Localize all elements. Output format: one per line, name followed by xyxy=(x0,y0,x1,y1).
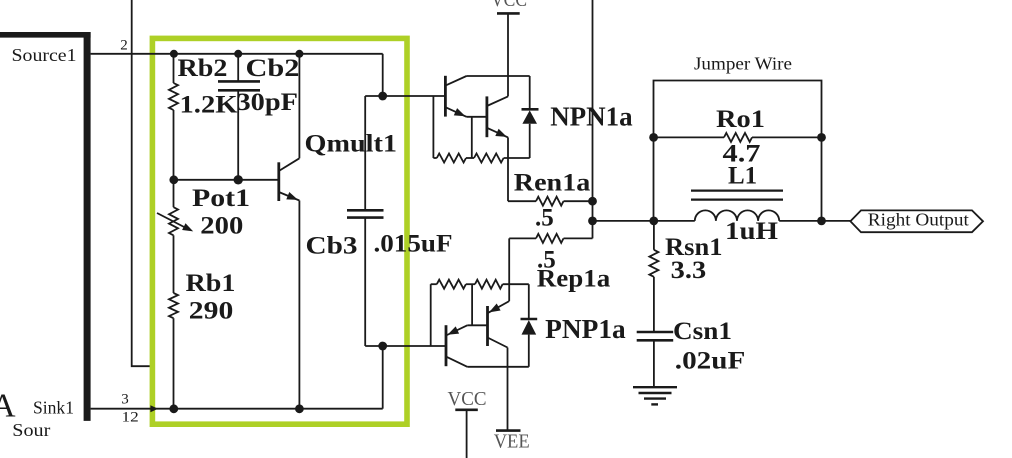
junction Qmult1 emitter bottom xyxy=(295,404,304,413)
VCC rail top xyxy=(507,13,509,96)
junction output node left xyxy=(588,217,597,226)
potentiometer Pot1 xyxy=(173,180,175,207)
base-emitter resistor row PNP1a xyxy=(431,283,437,285)
resistor Rb1 xyxy=(169,293,178,318)
svg-text:Rb1: Rb1 xyxy=(186,270,236,297)
svg-text:200: 200 xyxy=(200,212,243,239)
VCC stub bottom xyxy=(455,408,478,411)
base-emitter resistor row NPN1a xyxy=(432,96,434,158)
resistor Rep1a xyxy=(509,237,536,239)
svg-text:290: 290 xyxy=(189,297,234,324)
svg-text:PNP1a: PNP1a xyxy=(545,314,626,344)
svg-text:Jumper Wire: Jumper Wire xyxy=(694,54,792,74)
svg-text:12: 12 xyxy=(122,410,139,426)
junction L1 right xyxy=(817,217,826,226)
svg-text:NPN1a: NPN1a xyxy=(550,102,633,132)
svg-text:Right Output: Right Output xyxy=(868,209,969,229)
inductor L1 core lines xyxy=(691,190,783,192)
svg-text:Sour: Sour xyxy=(12,420,50,440)
transistor Q1 of PNP1a xyxy=(445,325,448,366)
svg-text:Ro1: Ro1 xyxy=(716,106,765,133)
transistor Q1 of NPN1a xyxy=(444,76,447,117)
svg-text:Rep1a: Rep1a xyxy=(537,265,611,292)
svg-text:1.2K: 1.2K xyxy=(180,92,239,119)
transistor Q2 of PNP1a xyxy=(486,306,489,346)
svg-text:.02uF: .02uF xyxy=(675,347,746,374)
junction Ro1 left xyxy=(649,133,658,142)
resistor Rb2 xyxy=(173,54,175,83)
connector Right Output xyxy=(850,210,983,232)
ground xyxy=(633,386,677,388)
junction L1 left / Rsn1 top xyxy=(649,217,658,226)
wire pin 2 (Source1 to node) xyxy=(91,53,383,55)
svg-text:3: 3 xyxy=(121,392,129,408)
junction NPN base node xyxy=(378,92,387,101)
wire base NPN xyxy=(365,95,445,97)
junction Cb2 bottom / Qmult1 base xyxy=(234,175,243,184)
diode of PNP1a xyxy=(528,284,530,318)
svg-text:.015uF: .015uF xyxy=(374,230,453,257)
svg-text:Csn1: Csn1 xyxy=(673,318,732,345)
svg-text:Cb3: Cb3 xyxy=(306,232,358,259)
capacitor Csn1 xyxy=(637,331,674,334)
capacitor Cb2 xyxy=(237,54,239,82)
transistor Q2 of NPN1a xyxy=(485,96,488,137)
transistor Qmult1 xyxy=(277,162,280,201)
svg-text:VCC: VCC xyxy=(491,0,527,11)
svg-text:1uH: 1uH xyxy=(725,218,779,245)
svg-text:30pF: 30pF xyxy=(237,89,299,116)
svg-text:Sink1: Sink1 xyxy=(33,397,74,417)
capacitor Cb3 xyxy=(347,209,384,212)
wire base PNP xyxy=(365,345,446,347)
junction Rb2 top xyxy=(170,50,178,58)
svg-text:3.3: 3.3 xyxy=(671,257,707,284)
resistor Ren1a xyxy=(508,200,536,202)
svg-text:Qmult1: Qmult1 xyxy=(305,131,398,158)
svg-text:Rb2: Rb2 xyxy=(178,55,228,82)
junction Qmult1 collector xyxy=(295,50,303,58)
svg-text:VEE: VEE xyxy=(494,431,530,453)
svg-text:A: A xyxy=(0,387,16,424)
svg-text:Ren1a: Ren1a xyxy=(514,169,591,196)
bottom wire PNP1a xyxy=(467,366,529,368)
wire Rb2/Cb2 bottom to Qmult1 base xyxy=(174,179,279,181)
junction PNP base node xyxy=(378,342,387,351)
Source1 block top bar xyxy=(0,32,91,38)
wire pin2 stub into subcircuit box xyxy=(132,0,153,366)
wire top node down to NPN base wire xyxy=(382,54,384,96)
svg-text:Pot1: Pot1 xyxy=(192,185,250,212)
svg-text:VCC: VCC xyxy=(448,388,487,410)
wire node down to bottom rail xyxy=(382,346,384,409)
svg-text:Source1: Source1 xyxy=(12,45,77,65)
junction Ren1a right xyxy=(588,197,597,206)
output rail xyxy=(593,220,695,222)
svg-text:Cb2: Cb2 xyxy=(246,55,300,82)
inductor L1 coil xyxy=(695,210,779,221)
svg-text:L1: L1 xyxy=(728,163,757,190)
feedback line from top xyxy=(592,0,594,221)
junction Rb1 bottom xyxy=(169,404,178,413)
junction Ro1 right xyxy=(817,133,826,142)
wire Cb3 top xyxy=(364,96,366,210)
svg-text:2: 2 xyxy=(120,38,128,54)
port arrow pin3 xyxy=(150,405,158,412)
VEE rail xyxy=(507,348,509,431)
resistor Rsn1 xyxy=(653,221,655,250)
diode of NPN1a xyxy=(529,76,531,109)
svg-text:.5: .5 xyxy=(535,204,554,231)
junction Cb2 top xyxy=(234,50,242,58)
resistor Ro1 xyxy=(654,136,725,138)
wire pin 3/12 bottom rail xyxy=(91,408,383,410)
Source1 block vertical bar xyxy=(84,32,91,421)
junction Rb2 bottom xyxy=(169,175,178,184)
jumper wire loop xyxy=(654,81,822,221)
highlight box (green) xyxy=(152,38,407,424)
